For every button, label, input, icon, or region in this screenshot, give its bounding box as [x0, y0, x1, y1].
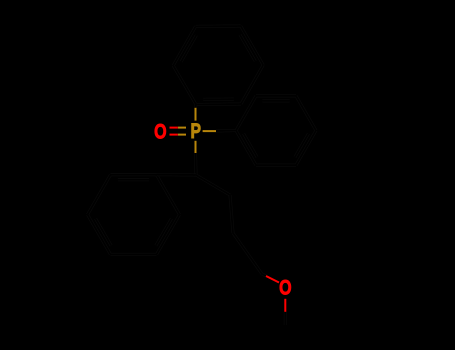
P=O double bond (P half, gold) [178, 128, 186, 135]
svg-text:O: O [279, 276, 292, 299]
bond P to ring A (P half, gold) [195, 108, 197, 121]
bond V2-V3 [233, 233, 262, 274]
phenyl ring B (right, carbon skeleton) [236, 96, 316, 165]
phenyl ring D (lower left, carbon skeleton) [88, 175, 180, 255]
bond P to C1 (carbon half) [194, 153, 198, 175]
bond C1-V1 [196, 175, 230, 195]
bond C1 to ring D [157, 173, 197, 176]
bond V1-V2 [230, 195, 233, 233]
bond aryl to methoxy O (O half, red) [266, 276, 279, 283]
svg-text:O: O [154, 121, 167, 144]
bond P to ring A (carbon half) [194, 105, 198, 108]
bond methoxy O to CH3 (carbon half) [284, 312, 287, 325]
bond P to ring B (carbon half) [216, 129, 236, 133]
phenyl ring A (top, carbon skeleton) [173, 26, 263, 105]
bond P to ring B (P half, gold) [203, 130, 216, 132]
svg-text:P: P [191, 120, 202, 143]
bond methoxy O to CH3 (O half, red) [284, 299, 286, 312]
P=O double bond (O half, red) [170, 128, 178, 135]
bond P to C1 (P half, gold) [195, 141, 197, 153]
bond V3 to methoxy O (carbon half) [262, 274, 266, 276]
